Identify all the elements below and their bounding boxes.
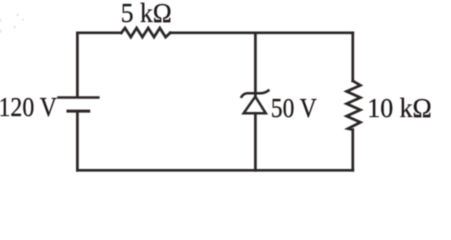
stray faint marks (cropped glyph remnants) [0, 14, 24, 33]
wire: left vertical upper (to battery) [76, 33, 79, 97]
wire: left vertical lower (battery to bottom) [76, 112, 79, 170]
battery V1 short plate [68, 110, 89, 113]
wire: right vertical lower [351, 130, 354, 171]
wire: top-right segment [170, 31, 353, 34]
wire: middle vertical upper (to zener) [254, 33, 257, 97]
resistor R1 zigzag [121, 28, 170, 37]
wire: bottom [77, 169, 352, 172]
svg-text:5 kΩ: 5 kΩ [121, 0, 172, 28]
svg-text:10 kΩ: 10 kΩ [367, 93, 432, 123]
wire: top-left segment [77, 31, 121, 34]
wire: middle vertical lower (zener to bottom) [254, 113, 257, 170]
svg-text:50 V: 50 V [271, 93, 317, 123]
resistor R2 zigzag [347, 81, 361, 130]
zener diode D1 cathode bar [242, 91, 269, 97]
wire: right vertical upper (to resistor R2) [351, 33, 354, 81]
battery V1 long plate [59, 96, 99, 99]
svg-text:120 V: 120 V [0, 92, 57, 122]
zener diode D1 triangle [244, 97, 266, 114]
